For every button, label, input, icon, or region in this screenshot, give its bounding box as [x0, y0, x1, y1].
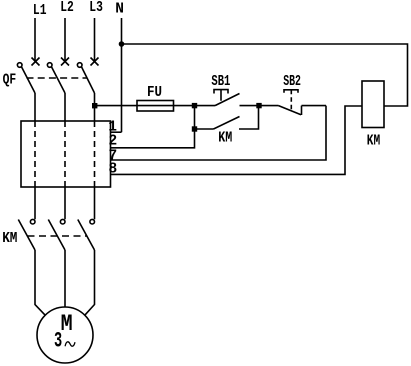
wire QF pole 1 to box	[34, 93, 36, 121]
svg-text:SB1: SB1	[211, 74, 230, 90]
wire terminal 2 up to control line	[111, 106, 195, 148]
wire N vertical	[121, 18, 123, 132]
pushbutton SB2 actuator dashed	[290, 90, 292, 110]
svg-text:N: N	[115, 2, 124, 18]
breaker QF linkage dashed	[27, 77, 88, 79]
pushbutton SB2 actuator	[284, 90, 298, 93]
box dashed pole 3	[94, 121, 96, 187]
wire KM aux right	[239, 106, 259, 129]
contact KM aux blade	[214, 117, 240, 130]
wire terminal 7 to SB2 right	[111, 106, 327, 160]
wire N to right edge	[122, 44, 408, 106]
wire SB2 right	[302, 105, 327, 107]
wire contact 2 to motor	[64, 250, 66, 307]
svg-text:QF: QF	[3, 72, 17, 88]
junction dot N top	[119, 41, 125, 47]
contactor KM main contact 1	[18, 219, 35, 250]
motor ~ label	[65, 342, 75, 346]
pushbutton SB1 actuator	[214, 90, 228, 101]
svg-text:KM: KM	[218, 131, 232, 147]
wire L2 incoming	[64, 18, 66, 62]
wire coil left to terminal 8	[111, 106, 363, 174]
pushbutton SB2 fixed terminal	[301, 106, 303, 115]
wire SB2 left	[259, 105, 279, 107]
fuse FU body	[137, 101, 174, 112]
wire QF pole 3 to box	[94, 93, 96, 121]
wire L3 tap to SB1	[95, 105, 216, 107]
breaker QF pole 1 X mark	[32, 58, 40, 66]
svg-text:L2: L2	[60, 0, 74, 16]
contactor coil KM	[362, 81, 384, 128]
svg-text:KM: KM	[367, 133, 380, 149]
svg-text:KM: KM	[2, 231, 17, 247]
junction dot control line left	[192, 103, 197, 108]
wire terminal 1 to N	[111, 131, 122, 133]
wire L1 incoming	[34, 18, 36, 62]
wire KM aux left	[195, 128, 214, 130]
svg-text:L1: L1	[33, 3, 47, 19]
motor M circle	[37, 307, 93, 363]
box dashed pole 2	[64, 121, 66, 187]
wire QF pole 2 to box	[64, 93, 66, 121]
contactor KM main contact 3	[78, 219, 95, 250]
breaker QF pole 1 blade	[17, 63, 35, 93]
contactor KM linkage dashed	[28, 235, 87, 237]
pushbutton SB2 contact blade	[279, 106, 302, 115]
wire box to KM contact 1	[34, 187, 36, 219]
box thermal unit	[21, 121, 111, 187]
svg-text:8: 8	[108, 161, 117, 177]
wire box to KM contact 3	[94, 187, 96, 219]
svg-text:3: 3	[54, 328, 62, 353]
breaker QF pole 2 X mark	[61, 58, 69, 66]
svg-text:2: 2	[108, 134, 117, 150]
svg-text:M: M	[61, 311, 73, 337]
box dashed pole 1	[34, 121, 36, 187]
junction dot L3 tap	[92, 103, 97, 108]
svg-text:SB2: SB2	[283, 74, 301, 90]
breaker QF pole 3 blade	[77, 63, 94, 93]
wire contact 3 to motor	[85, 250, 95, 315]
breaker QF pole 3 X mark	[91, 58, 99, 66]
breaker QF pole 2 blade	[47, 63, 65, 93]
svg-text:FU: FU	[147, 85, 162, 101]
wire L3 incoming	[94, 18, 96, 62]
contactor KM main contact 2	[48, 219, 65, 250]
wire box to KM contact 2	[64, 187, 66, 219]
wire SB1 right	[240, 105, 260, 107]
svg-text:L3: L3	[89, 0, 103, 16]
pushbutton SB1 contact blade	[215, 94, 240, 106]
junction dot SB1 right	[256, 103, 261, 108]
wire contact 1 to motor	[35, 250, 45, 315]
junction dot KM aux left	[192, 126, 197, 131]
